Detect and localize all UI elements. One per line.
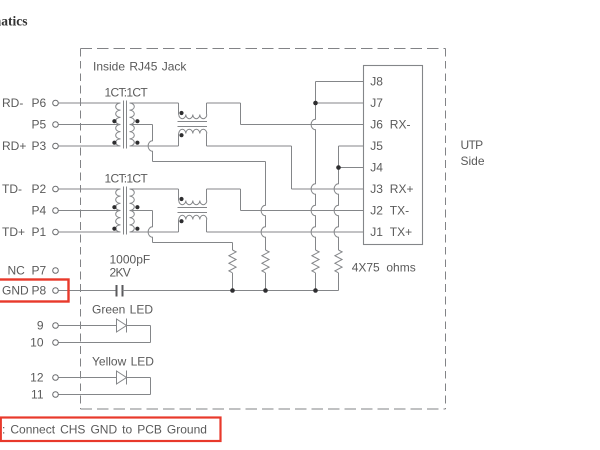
svg-text:Side: Side — [461, 154, 485, 168]
svg-text:UTP: UTP — [461, 138, 484, 152]
transformer T2 secondary winding — [130, 189, 135, 232]
choke L1 top winding — [179, 115, 207, 119]
wire to J6 RX- — [241, 124, 364, 126]
svg-text:P5: P5 — [32, 118, 47, 132]
wire J4 — [339, 167, 364, 169]
svg-text:P1: P1 — [32, 225, 47, 239]
wire P6 to T1 primary top — [59, 102, 121, 104]
svg-text:J3: J3 — [370, 182, 383, 196]
ground termination rail — [123, 290, 339, 292]
wire to J2 TX- — [241, 210, 364, 212]
wire pin 9 to green LED — [59, 325, 117, 327]
red highlight box around GND P8 — [0, 280, 69, 302]
svg-text:P2: P2 — [32, 182, 47, 196]
wire RD center tap across — [153, 161, 266, 163]
svg-text:11: 11 — [31, 388, 44, 402]
pin 12 — [53, 375, 59, 381]
svg-text:NC: NC — [8, 264, 26, 278]
svg-text:4X75 ohms: 4X75 ohms — [352, 260, 416, 274]
resistor R2 (75 ohm) — [262, 250, 269, 273]
wire P2 to T2 primary top — [59, 188, 121, 190]
wire P1 to T2 primary bottom — [59, 231, 121, 233]
svg-text:J4: J4 — [370, 161, 383, 175]
svg-text:1CT:1CT: 1CT:1CT — [105, 86, 149, 100]
svg-text:P3: P3 — [32, 139, 47, 153]
resistor R3 (75 ohm) — [312, 250, 319, 273]
svg-text:2KV: 2KV — [110, 265, 131, 279]
wire T1 secondary center tap — [130, 124, 153, 126]
svg-text:J6: J6 — [370, 118, 383, 132]
svg-text:10: 10 — [30, 336, 44, 350]
svg-text:P8: P8 — [32, 284, 47, 298]
svg-text:Inside RJ45 Jack: Inside RJ45 Jack — [93, 60, 187, 74]
wire RD center tap down — [148, 125, 152, 162]
svg-text:RX-: RX- — [390, 118, 411, 132]
wire TD center tap down — [148, 211, 152, 243]
wire P3 to T1 primary bottom — [59, 145, 121, 147]
choke L1 core — [177, 121, 207, 123]
svg-text:GND: GND — [2, 284, 29, 298]
svg-text:RX+: RX+ — [390, 182, 414, 196]
yellow LED D2 — [117, 371, 127, 384]
choke L2 core — [177, 207, 207, 209]
green LED D1 — [117, 319, 127, 332]
wire T1 secondary top to choke L1 — [130, 102, 179, 104]
svg-text:Yellow LED: Yellow LED — [92, 354, 154, 368]
junction dot R1-rail — [230, 288, 235, 293]
wire P5 to T1 primary center tap — [59, 124, 121, 126]
svg-text:J8: J8 — [370, 75, 383, 89]
svg-text:9: 9 — [37, 319, 44, 333]
wire J5/J4 tie down to R4 — [334, 146, 338, 250]
choke L2 polarity dots — [179, 197, 183, 201]
wire down to J3 level — [291, 146, 293, 189]
wire J7 — [316, 102, 364, 104]
wire J8 — [316, 81, 364, 83]
wire choke L2 top out — [207, 188, 241, 190]
svg-text:J5: J5 — [370, 139, 383, 153]
svg-text:Green LED: Green LED — [92, 303, 153, 317]
svg-text:J7: J7 — [370, 96, 383, 110]
wire TD center tap across — [153, 242, 233, 244]
transformer T2 primary winding — [116, 189, 121, 232]
dashed RJ45 jack enclosure border — [81, 49, 446, 410]
svg-text:Schematics: Schematics — [0, 14, 28, 29]
wire green LED to pin 10 — [127, 325, 151, 327]
wire to J3 RX+ — [292, 188, 364, 190]
wire T2 secondary center tap — [130, 210, 153, 212]
wire P4 to T2 primary center tap — [59, 210, 121, 212]
svg-text:TD-: TD- — [2, 182, 22, 196]
wire choke L1 bottom out — [207, 145, 292, 147]
svg-text:P4: P4 — [32, 204, 47, 218]
choke L1 polarity dots — [179, 111, 183, 115]
pin 11 — [53, 392, 59, 398]
choke L2 bottom winding — [179, 215, 207, 219]
svg-text:P6: P6 — [32, 96, 47, 110]
junction dot J7/J8 — [313, 101, 318, 106]
wire RD center tap down to R2 — [261, 162, 265, 251]
choke L2 top winding — [179, 201, 207, 205]
wire pin 12 to yellow LED — [59, 377, 117, 379]
wire J5 — [339, 145, 364, 147]
svg-text:J1: J1 — [370, 225, 383, 239]
svg-text:RD-: RD- — [2, 96, 23, 110]
svg-text:TX+: TX+ — [390, 225, 412, 239]
wire yellow LED to pin 11 — [127, 377, 151, 379]
pin 9 — [53, 323, 59, 329]
choke L1 bottom winding — [179, 129, 207, 133]
wire T1 secondary bottom to choke L1 — [130, 145, 179, 147]
wire TD center tap down to R1 — [232, 243, 234, 251]
capacitor C1 1000pF 2KV — [116, 285, 118, 297]
wire T2 secondary bottom to choke L2 — [130, 231, 179, 233]
T2 polarity dots — [112, 205, 116, 209]
svg-text:P7: P7 — [32, 264, 47, 278]
transformer T1 core — [123, 101, 125, 149]
transformer T1 secondary winding — [130, 103, 135, 146]
choke L1 left leads — [178, 103, 180, 115]
svg-text:J2: J2 — [370, 204, 383, 218]
choke L2 right leads — [206, 189, 208, 201]
T1 polarity dots — [112, 119, 116, 123]
resistor R4 (75 ohm) — [335, 250, 342, 273]
junction dot R2-rail — [263, 288, 268, 293]
svg-text:1CT:1CT: 1CT:1CT — [105, 172, 149, 186]
choke L2 left leads — [178, 189, 180, 201]
svg-text:12: 12 — [30, 371, 44, 385]
svg-text:RD+: RD+ — [2, 139, 26, 153]
wire choke L1 top out — [207, 102, 241, 104]
wire P8 to capacitor C1 — [59, 290, 117, 292]
transformer T2 core — [123, 187, 125, 235]
junction dot J5/J4 — [336, 165, 341, 170]
choke L1 right leads — [206, 103, 208, 115]
svg-text:TD+: TD+ — [2, 225, 25, 239]
svg-text:TX-: TX- — [390, 204, 409, 218]
wire choke L2 bottom out to J1 TX+ — [207, 231, 364, 233]
red highlight box around note — [1, 418, 221, 442]
resistor R1 (75 ohm) — [229, 250, 236, 273]
transformer T1 primary winding — [116, 103, 121, 146]
pin 10 — [53, 340, 59, 346]
wire down to J6 level — [240, 103, 242, 125]
RJ45 connector box — [364, 66, 423, 245]
junction dot R3-rail — [313, 288, 318, 293]
wire J8/J7 tie down to R3 — [311, 82, 315, 251]
wire down to J2 level — [240, 189, 242, 211]
svg-text:: Connect CHS GND to PCB Groun: : Connect CHS GND to PCB Ground — [2, 423, 207, 437]
wire T2 secondary top to choke L2 — [130, 188, 179, 190]
